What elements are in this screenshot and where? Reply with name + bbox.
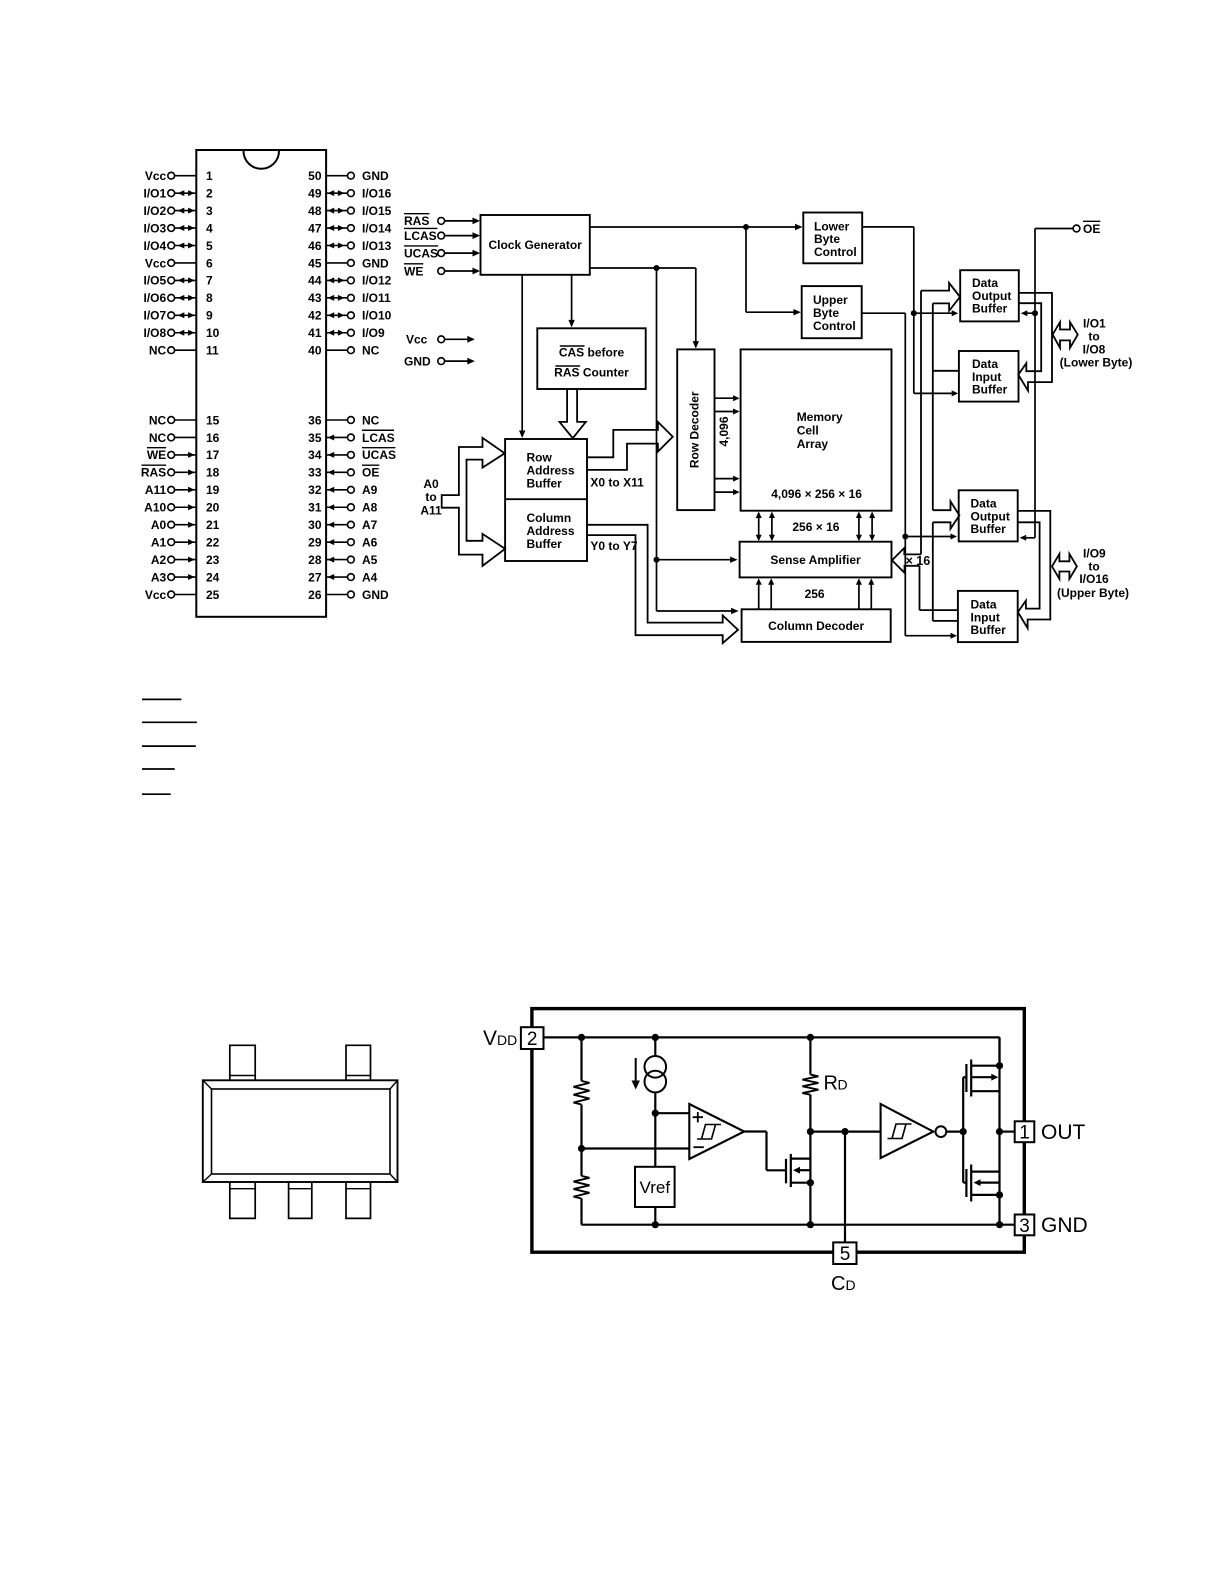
- svg-text:A11: A11: [420, 503, 442, 517]
- NMOS source dot: [996, 1191, 1003, 1198]
- I/O1-I/O8 bidirectional arrow: [1053, 322, 1078, 348]
- pin 8 I/O6 (left): [144, 291, 213, 305]
- pin 4 I/O3 (left): [144, 221, 213, 235]
- wire: into column decoder: [657, 608, 739, 614]
- wire: CD node down to pin 5: [844, 1132, 846, 1243]
- svg-text:GND: GND: [404, 354, 431, 368]
- svg-text:10: 10: [206, 326, 220, 340]
- pin 26 GND (right): [308, 588, 389, 602]
- resistor divider upper R: [574, 1037, 590, 1148]
- svg-text:A2: A2: [151, 553, 167, 567]
- arrows: column decoder to sense amplifier: [756, 578, 875, 609]
- Q1 source/body junction dot: [807, 1179, 814, 1186]
- svg-text:I/O11: I/O11: [362, 291, 391, 305]
- hollow fork arrow: A0-A11 address inputs: [442, 438, 505, 566]
- svg-text:I/O12: I/O12: [362, 274, 392, 288]
- junction node upper enable: [902, 534, 908, 540]
- svg-text:I/O3: I/O3: [144, 221, 167, 235]
- terminal OE (output enable): [1073, 221, 1100, 236]
- junction dots on VDD rail: [578, 1034, 585, 1041]
- OUT node dot: [996, 1128, 1003, 1135]
- data output buffer (lower byte): [960, 270, 1019, 321]
- svg-text:OE: OE: [362, 466, 379, 480]
- svg-text:Buffer: Buffer: [972, 383, 1008, 397]
- hollow arrow: read bus into lower data output buffer: [921, 283, 960, 311]
- svg-text:× 16: × 16: [906, 554, 931, 568]
- wire: current source to +input node: [654, 1092, 656, 1166]
- wire: RD to CD node and down Q1: [809, 1095, 811, 1225]
- pin 23 A2 (left): [151, 553, 220, 567]
- package pin 5 (top-left lead): [230, 1045, 255, 1080]
- hollow arrow: x16 bus into sense amplifier: [892, 548, 921, 573]
- svg-text:DD: DD: [497, 1032, 517, 1048]
- junction dots on GND rail: [652, 1221, 659, 1228]
- svg-text:5: 5: [840, 1244, 851, 1265]
- terminal LCAS (input): [404, 228, 480, 243]
- svg-text:I/O1: I/O1: [1083, 317, 1106, 331]
- signal overline mark 4: [142, 768, 175, 770]
- svg-text:A10: A10: [144, 501, 166, 515]
- pin box 5 (CD): [833, 1242, 856, 1265]
- svg-text:20: 20: [206, 501, 220, 515]
- wire: Vref to GND rail: [654, 1207, 656, 1225]
- svg-text:Vcc: Vcc: [145, 169, 167, 183]
- data output buffer (upper byte): [959, 490, 1018, 541]
- wire: OUT node to pin 1: [1000, 1130, 1015, 1132]
- svg-text:Byte: Byte: [813, 306, 839, 320]
- pin 2 I/O1 (left): [144, 186, 213, 200]
- svg-text:40: 40: [308, 344, 322, 358]
- svg-text:33: 33: [308, 466, 322, 480]
- bus line: right edge continues to upper data input buffer: [933, 522, 958, 621]
- svg-text:26: 26: [308, 588, 322, 602]
- CD label: [831, 1273, 856, 1295]
- svg-text:OE: OE: [1083, 222, 1100, 236]
- svg-text:17: 17: [206, 448, 220, 462]
- svg-text:Vcc: Vcc: [145, 256, 167, 270]
- svg-text:to: to: [425, 490, 436, 504]
- pin 47 I/O14 (right): [308, 221, 392, 235]
- terminal Vcc: [406, 333, 475, 347]
- svg-text:A3: A3: [151, 570, 167, 584]
- signal overline mark 3: [142, 745, 196, 747]
- svg-text:A4: A4: [362, 570, 378, 584]
- svg-text:A0: A0: [423, 477, 439, 491]
- junction node OE to lower output buffer: [1032, 310, 1038, 316]
- svg-text:I/O8: I/O8: [1083, 342, 1106, 356]
- wire: VDD top rail: [544, 1037, 1000, 1065]
- CD node dots: [807, 1128, 814, 1135]
- svg-text:(Upper Byte): (Upper Byte): [1057, 586, 1129, 600]
- svg-text:5: 5: [206, 239, 213, 253]
- svg-text:4: 4: [206, 221, 213, 235]
- svg-text:NC: NC: [149, 344, 167, 358]
- wire: CD node to inverter input: [810, 1130, 880, 1132]
- transistor Q2 (PMOS, output high side): [966, 1060, 999, 1097]
- svg-text:I/O6: I/O6: [144, 291, 167, 305]
- svg-text:16: 16: [206, 431, 220, 445]
- current direction arrow: [632, 1058, 640, 1090]
- svg-text:44: 44: [308, 274, 322, 288]
- hollow arrow: column address buffer to column decoder (Y0 to Y7): [587, 525, 738, 643]
- wire: branch down to upper byte control: [746, 227, 801, 315]
- svg-text:7: 7: [206, 274, 213, 288]
- pin 6 Vcc (left): [145, 256, 213, 270]
- wire: down to sense amplifier: [657, 268, 738, 611]
- pin 29 A6 (right): [308, 535, 378, 549]
- svg-text:8: 8: [206, 291, 213, 305]
- wire: clock generator 2nd output to row decoder: [590, 268, 699, 349]
- wire: OE down right side: [1035, 229, 1073, 538]
- svg-text:Buffer: Buffer: [971, 522, 1007, 536]
- terminal UCAS (input): [404, 246, 480, 261]
- svg-text:Upper: Upper: [813, 293, 848, 307]
- svg-text:I/O15: I/O15: [362, 204, 392, 218]
- lower byte control block: [803, 213, 862, 264]
- svg-text:28: 28: [308, 553, 322, 567]
- svg-text:WE: WE: [147, 448, 166, 462]
- svg-text:6: 6: [206, 256, 213, 270]
- pin 3 I/O2 (left): [144, 204, 213, 218]
- svg-text:A0: A0: [151, 518, 167, 532]
- svg-text:I/O1: I/O1: [144, 186, 167, 200]
- bus line: left edge down to sense amp shaft: [920, 291, 922, 555]
- svg-text:A6: A6: [362, 535, 378, 549]
- svg-text:GND: GND: [362, 256, 389, 270]
- hollow bus: lower DOB out / DIB in with arrow: [1018, 293, 1052, 391]
- pin 10 I/O8 (left): [144, 326, 220, 340]
- svg-text:Vref: Vref: [640, 1178, 671, 1197]
- svg-text:I/O10: I/O10: [362, 309, 392, 323]
- svg-text:Address: Address: [527, 463, 575, 477]
- svg-text:Address: Address: [527, 524, 575, 538]
- transistor Q1 (NMOS): [786, 1154, 810, 1187]
- wire: node to comparator non-inverting input: [655, 1112, 689, 1114]
- svg-text:35: 35: [308, 431, 322, 445]
- svg-text:48: 48: [308, 204, 322, 218]
- wire: rail to current source: [654, 1037, 656, 1056]
- gate node dot: [960, 1128, 967, 1135]
- pin 9 I/O7 (left): [144, 309, 213, 323]
- pin 33 OE (right): [308, 465, 379, 480]
- svg-text:31: 31: [308, 501, 322, 515]
- svg-text:(Lower Byte): (Lower Byte): [1060, 355, 1133, 369]
- data input buffer (upper byte): [958, 591, 1018, 642]
- svg-text:C: C: [831, 1273, 845, 1295]
- pin 40 NC (right): [308, 344, 380, 358]
- signal overline mark 5: [142, 793, 171, 795]
- svg-text:50: 50: [308, 169, 322, 183]
- pin 43 I/O11 (right): [308, 291, 391, 305]
- junction node lower enable: [911, 310, 917, 316]
- svg-text:I/O2: I/O2: [144, 204, 167, 218]
- pin 41 I/O9 (right): [308, 326, 385, 340]
- svg-text:A9: A9: [362, 483, 378, 497]
- svg-text:42: 42: [308, 309, 322, 323]
- wire: clock generator to lower byte control: [590, 224, 803, 230]
- svg-text:2: 2: [206, 186, 213, 200]
- svg-text:I/O5: I/O5: [144, 274, 167, 288]
- svg-text:A1: A1: [151, 535, 167, 549]
- svg-text:24: 24: [206, 570, 220, 584]
- wire: GND bottom rail: [582, 1224, 1015, 1226]
- terminal RAS (input): [404, 214, 480, 229]
- svg-text:Vcc: Vcc: [406, 333, 428, 347]
- pin box 3 (GND): [1015, 1215, 1035, 1237]
- pin 35 LCAS (right): [308, 430, 395, 445]
- svg-text:1: 1: [206, 169, 213, 183]
- SMD package body (top view): [203, 1080, 398, 1182]
- svg-text:RAS: RAS: [404, 214, 429, 228]
- pin 21 A0 (left): [151, 518, 220, 532]
- svg-text:R: R: [824, 1073, 838, 1095]
- pin 46 I/O13 (right): [308, 239, 392, 253]
- A0 to A11 label: [420, 477, 442, 518]
- bus line: sense amp to upper data input buffer: [920, 566, 958, 610]
- svg-text:Y0 to Y7: Y0 to Y7: [590, 539, 637, 553]
- junction node at sense amp feed: [654, 557, 660, 563]
- upper byte control block: [802, 286, 862, 338]
- hollow bus: upper DOB out / DIB in with arrow: [1017, 511, 1050, 628]
- pin 7 I/O5 (left): [144, 274, 213, 288]
- svg-text:22: 22: [206, 535, 220, 549]
- wire: output node rail: [998, 1037, 1000, 1224]
- divider tap node: [578, 1145, 585, 1152]
- pin 27 A4 (right): [308, 570, 378, 584]
- svg-text:15: 15: [206, 413, 220, 427]
- pin 11 NC (left): [149, 344, 219, 358]
- current source (overlapping circles): [645, 1056, 667, 1092]
- wire: VDD pin stub: [531, 1012, 533, 1027]
- svg-text:NC: NC: [149, 413, 167, 427]
- wire: comparator output to Q1 gate: [744, 1132, 786, 1171]
- svg-text:Array: Array: [797, 437, 829, 451]
- clock generator block: [481, 215, 590, 275]
- pin 34 UCAS (right): [308, 448, 396, 463]
- svg-text:Column Decoder: Column Decoder: [768, 619, 864, 633]
- svg-text:GND: GND: [362, 588, 389, 602]
- pin 16 NC (left): [149, 431, 220, 445]
- svg-text:I/O14: I/O14: [362, 221, 392, 235]
- wire: upper byte control enable line: [862, 313, 957, 639]
- pin 20 A10 (left): [144, 501, 219, 515]
- CAS-before-RAS counter block: [537, 328, 645, 389]
- svg-text:Cell: Cell: [797, 424, 819, 438]
- svg-text:I/O16: I/O16: [1079, 572, 1109, 586]
- comparator with hysteresis: [689, 1104, 744, 1159]
- pin 49 I/O16 (right): [308, 186, 392, 200]
- pin 32 A9 (right): [308, 483, 378, 497]
- bus line: into lower data input buffer: [933, 370, 959, 372]
- svg-text:2: 2: [527, 1029, 538, 1050]
- pin 45 GND (right): [308, 256, 389, 270]
- svg-text:47: 47: [308, 221, 322, 235]
- row address buffer / column address buffer block: [505, 439, 587, 561]
- pin 42 I/O10 (right): [308, 309, 392, 323]
- sense amplifier block: [740, 542, 892, 578]
- pin 1 Vcc (left): [145, 169, 213, 183]
- svg-text:41: 41: [308, 326, 322, 340]
- svg-text:GND: GND: [1041, 1214, 1088, 1237]
- wire: clock generator down to CBR counter: [568, 275, 574, 328]
- signal overline mark 1: [142, 698, 181, 700]
- svg-text:Row Decoder: Row Decoder: [687, 391, 701, 468]
- package pin 2 (bottom-middle lead): [289, 1182, 312, 1218]
- svg-text:D: D: [846, 1277, 856, 1293]
- svg-text:4,096 × 256 × 16: 4,096 × 256 × 16: [771, 487, 862, 501]
- wire: clock generator down to row address buffer: [519, 275, 525, 438]
- pin 5 I/O4 (left): [144, 239, 213, 253]
- svg-text:Column: Column: [527, 511, 572, 525]
- detector IC boundary box: [532, 1009, 1024, 1253]
- package pin 4 (top-right lead): [346, 1045, 371, 1080]
- svg-text:43: 43: [308, 291, 322, 305]
- svg-text:NC: NC: [362, 344, 380, 358]
- pin 17 WE (left): [147, 448, 220, 463]
- svg-text:I/O13: I/O13: [362, 239, 392, 253]
- inverter with hysteresis: [881, 1104, 947, 1158]
- svg-text:1: 1: [1019, 1123, 1030, 1144]
- memory cell array block: [741, 349, 892, 510]
- svg-text:11: 11: [206, 344, 219, 358]
- pin 24 A3 (left): [151, 570, 220, 584]
- svg-text:3: 3: [206, 204, 213, 218]
- svg-text:18: 18: [206, 466, 220, 480]
- pin 31 A8 (right): [308, 501, 378, 515]
- svg-text:21: 21: [206, 518, 220, 532]
- svg-text:NC: NC: [362, 413, 380, 427]
- svg-text:RAS Counter: RAS Counter: [554, 366, 629, 380]
- svg-text:Buffer: Buffer: [527, 476, 563, 490]
- pin box 2 (VDD): [521, 1027, 544, 1050]
- svg-text:Clock Generator: Clock Generator: [488, 238, 582, 252]
- IC package U1 body: [196, 150, 326, 617]
- svg-text:27: 27: [308, 570, 322, 584]
- svg-text:30: 30: [308, 518, 322, 532]
- svg-text:NC: NC: [149, 431, 167, 445]
- svg-text:X0 to X11: X0 to X11: [590, 475, 644, 489]
- column decoder block: [742, 609, 891, 642]
- wire: inverter output to gates: [946, 1077, 966, 1182]
- svg-text:A11: A11: [145, 483, 167, 497]
- I/O9 to I/O16 labels: [1057, 546, 1129, 599]
- svg-text:9: 9: [206, 309, 213, 323]
- package pin 3 (bottom-right lead): [346, 1182, 371, 1218]
- pin 22 A1 (left): [151, 535, 220, 549]
- pin 48 I/O15 (right): [308, 204, 392, 218]
- svg-text:I/O16: I/O16: [362, 186, 392, 200]
- svg-text:29: 29: [308, 535, 322, 549]
- svg-text:23: 23: [206, 553, 220, 567]
- wire: OE enable into upper data output buffer: [1020, 535, 1035, 541]
- svg-text:Control: Control: [813, 319, 856, 333]
- svg-text:WE: WE: [404, 264, 423, 278]
- pin 28 A5 (right): [308, 553, 378, 567]
- svg-text:A5: A5: [362, 553, 378, 567]
- svg-text:GND: GND: [362, 169, 389, 183]
- svg-text:A7: A7: [362, 518, 378, 532]
- svg-text:256 × 16: 256 × 16: [792, 520, 839, 534]
- svg-text:256: 256: [805, 587, 825, 601]
- arrows: row decoder to memory cell array: [715, 395, 740, 495]
- svg-text:LCAS: LCAS: [362, 431, 395, 445]
- svg-text:34: 34: [308, 448, 322, 462]
- bus line: right edge down to upper DOB arrow: [932, 303, 934, 510]
- svg-text:UCAS: UCAS: [404, 246, 438, 260]
- svg-text:Buffer: Buffer: [971, 623, 1007, 637]
- svg-text:46: 46: [308, 239, 322, 253]
- svg-text:V: V: [483, 1027, 497, 1050]
- wire: lower byte control enable line: [862, 227, 958, 397]
- svg-text:I/O7: I/O7: [144, 309, 167, 323]
- pin 19 A11 (left): [145, 483, 220, 497]
- pin 50 GND (right): [308, 169, 389, 183]
- wire: tap to comparator inverting input: [582, 1147, 690, 1149]
- junction node feeding sense amp / column decoder: [654, 265, 660, 271]
- Vref reference box: [635, 1167, 675, 1207]
- svg-text:Sense Amplifier: Sense Amplifier: [770, 553, 861, 567]
- pin 36 NC (right): [308, 413, 380, 427]
- terminal GND: [404, 354, 475, 368]
- svg-text:36: 36: [308, 413, 322, 427]
- row decoder block: [677, 349, 714, 510]
- svg-text:OUT: OUT: [1041, 1121, 1086, 1144]
- svg-text:Control: Control: [814, 245, 857, 259]
- svg-text:RAS: RAS: [141, 466, 166, 480]
- pin 18 RAS (left): [141, 465, 220, 480]
- svg-text:CAS before: CAS before: [559, 346, 625, 360]
- PMOS source dot: [996, 1062, 1003, 1069]
- svg-text:4,096: 4,096: [717, 416, 731, 446]
- I/O1 to I/O8 labels: [1060, 317, 1133, 370]
- svg-text:32: 32: [308, 483, 322, 497]
- +input node: [652, 1110, 659, 1117]
- pin 44 I/O12 (right): [308, 274, 392, 288]
- svg-text:Memory: Memory: [797, 410, 843, 424]
- terminal WE (input): [404, 264, 480, 279]
- pin box 1 (OUT): [1015, 1121, 1035, 1143]
- package pin 1 (bottom-left lead): [230, 1182, 255, 1218]
- pin 15 NC (left): [149, 413, 220, 427]
- svg-text:Buffer: Buffer: [972, 302, 1008, 316]
- hollow arrow: CBR counter to row address buffer: [560, 389, 586, 438]
- VDD label: [483, 1027, 517, 1050]
- wire: rail down through RD: [809, 1037, 811, 1074]
- svg-text:A8: A8: [362, 501, 378, 515]
- svg-text:I/O9: I/O9: [1083, 546, 1106, 560]
- svg-text:Vcc: Vcc: [145, 588, 167, 602]
- svg-text:I/O8: I/O8: [144, 326, 167, 340]
- resistor RD: [802, 1075, 818, 1095]
- hollow arrow: row address buffer to row decoder (X0 to X11): [587, 422, 673, 470]
- svg-text:UCAS: UCAS: [362, 448, 396, 462]
- svg-text:49: 49: [308, 186, 322, 200]
- svg-text:I/O4: I/O4: [144, 239, 167, 253]
- svg-text:D: D: [838, 1077, 848, 1093]
- pin 25 Vcc (left): [145, 588, 220, 602]
- data input buffer (lower byte): [959, 351, 1019, 402]
- svg-text:LCAS: LCAS: [404, 229, 437, 243]
- transistor Q3 (NMOS, output low side): [966, 1165, 999, 1202]
- svg-text:Row: Row: [527, 450, 553, 464]
- RD label: [824, 1073, 848, 1095]
- hollow arrow: bus into upper data output buffer: [933, 501, 960, 528]
- resistor divider lower R: [574, 1149, 590, 1225]
- svg-text:25: 25: [206, 588, 220, 602]
- I/O9-I/O16 bidirectional arrow: [1052, 554, 1077, 579]
- svg-text:Buffer: Buffer: [527, 537, 563, 551]
- junction node on clock line: [743, 224, 749, 230]
